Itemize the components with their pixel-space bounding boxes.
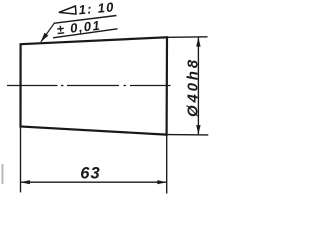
svg-text:Ø40h8: Ø40h8 (185, 57, 202, 117)
svg-text:63: 63 (80, 164, 100, 182)
